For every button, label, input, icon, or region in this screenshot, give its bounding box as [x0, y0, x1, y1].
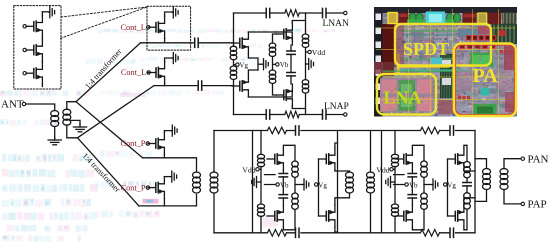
- svg-text:Cont_L: Cont_L: [121, 68, 146, 77]
- wire PA1 input sources: [282, 170, 284, 205]
- wire P2 drain to output: [292, 106, 305, 109]
- Cont_L terminal 1: [147, 26, 150, 29]
- svg-text:SPDT: SPDT: [403, 39, 449, 59]
- Cont_P terminal 2: [146, 186, 149, 189]
- wire PA1 mid tap: [295, 184, 303, 186]
- wire T3 secondary top: [370, 131, 372, 173]
- callout line upper: [61, 7, 147, 17]
- wire to LNAP: [327, 114, 344, 116]
- wire to stack ground: [42, 11, 49, 13]
- svg-text:Vdd: Vdd: [312, 48, 326, 57]
- LNAP terminal: [344, 113, 347, 116]
- wire PA2 cascode drains: [464, 145, 467, 230]
- wire N cont.: [200, 42, 233, 44]
- PA FET PA1b (input bottom): [267, 215, 275, 217]
- wire feedback left N: [233, 13, 235, 43]
- wire PA2 Vdd stub: [393, 168, 395, 170]
- capacitor C10 (PA1 bottom): [295, 228, 297, 237]
- stacked FET M2 gate terminal: [23, 48, 26, 51]
- PA block outline (red): [456, 45, 515, 115]
- wire PA1 cascode gates: [317, 159, 320, 216]
- wire N (LNA input N): [141, 42, 194, 44]
- switch FET SW3: [148, 143, 156, 145]
- svg-text:LNAN: LNAN: [323, 19, 350, 29]
- inductor PA1 mid bottom: [292, 193, 299, 199]
- wire: [273, 84, 277, 96]
- wire: [233, 80, 235, 86]
- ground (SW3): [171, 130, 174, 132]
- wire Vb stub: [273, 57, 276, 71]
- wire T1 primary to ground: [54, 127, 56, 139]
- ground (T1 primary): [54, 138, 56, 141]
- wire (stack drain-source links): [41, 12, 43, 87]
- wire diagonal to LNA P: [78, 86, 155, 138]
- svg-text:Vb: Vb: [280, 181, 289, 189]
- wire: [271, 12, 285, 14]
- svg-text:PA: PA: [473, 65, 499, 87]
- PA FET PA2a (input top): [396, 158, 404, 160]
- stacked FET M2: [26, 49, 34, 51]
- inductor Lg2: [230, 66, 237, 71]
- PA FET PA2d (cascode bottom): [448, 215, 456, 217]
- wire T1 secondary top: [67, 102, 76, 110]
- wire PA1 cascode drains: [335, 143, 338, 232]
- resistor R2 (feedback P): [285, 111, 300, 118]
- wire: [299, 12, 321, 14]
- wire P (LNA input P): [154, 85, 197, 87]
- inductor PA1 mid top: [292, 161, 299, 167]
- wire T4 secondary top to PAN: [504, 159, 521, 169]
- ground (PA2 bias): [391, 181, 396, 183]
- wire ANT to transformer: [26, 104, 55, 111]
- LNAN terminal: [344, 11, 347, 14]
- wire LNA bottom rail: [234, 114, 266, 116]
- svg-text:Cont_P: Cont_P: [120, 139, 145, 148]
- ground (SW4): [170, 176, 173, 178]
- wire PA2 input drains: [412, 145, 424, 230]
- Vdd terminal (LNA): [308, 50, 311, 53]
- Vb terminal (LNA): [276, 63, 279, 66]
- LNA block outline: [377, 74, 436, 115]
- dashed zoom box (switch FET): [147, 6, 191, 50]
- wire: [299, 114, 321, 116]
- stacked FET M3: [26, 72, 34, 74]
- PA FET PA2c (cascode top): [448, 158, 456, 160]
- svg-text:PAN: PAN: [528, 153, 549, 165]
- svg-text:Vg: Vg: [447, 181, 456, 189]
- ground (PA1 mid): [303, 184, 304, 186]
- wire SW4 source to PA wire: [163, 199, 165, 206]
- wire T2 secondary bottom: [213, 193, 215, 233]
- svg-text:LNA: LNA: [384, 88, 422, 108]
- wire PA1 right vertical: [337, 131, 339, 233]
- wire PA2 stubs: [394, 175, 405, 185]
- Vdd terminal (PA1): [256, 168, 259, 171]
- ground (stack top): [48, 11, 51, 13]
- PA FET PA1d (cascode bottom): [319, 215, 327, 217]
- wire LNA top rail: [234, 12, 266, 14]
- LNA cascode FET N2: [276, 33, 284, 35]
- resistor R3 (PA1 top): [268, 127, 287, 134]
- wire T1 center tap: [70, 120, 80, 124]
- wire PA2 right column: [466, 178, 468, 192]
- svg-text:ANT: ANT: [1, 98, 24, 110]
- inductor Lb2: [269, 70, 276, 75]
- Cont_P terminal 1: [146, 142, 149, 145]
- wire P cont.: [203, 85, 232, 87]
- svg-text:Vg: Vg: [239, 61, 248, 69]
- wire PA1 mid column: [294, 178, 296, 193]
- wire T2 secondary top: [213, 131, 215, 173]
- Vg terminal (PA1): [315, 183, 318, 186]
- switch FET SW1: [148, 26, 156, 28]
- wire T3 primary top: [338, 171, 350, 172]
- wire SW3 source to PA wire: [163, 155, 165, 158]
- capacitor PA1 Vb top: [279, 173, 287, 175]
- Vg terminal (LNA): [236, 63, 239, 66]
- ground (T1 center tap): [79, 125, 81, 128]
- wire T1 secondary bottom: [67, 125, 78, 138]
- wire PA2 cascode gates: [446, 159, 449, 216]
- ground (PA2 mid): [432, 184, 433, 186]
- capacitor PA1 Vb bottom: [279, 194, 287, 196]
- inductor PA2 bias bottom: [391, 204, 398, 209]
- decorative artifact bands: [0, 29, 335, 242]
- transformer T3 primary coil: [346, 172, 354, 178]
- transformer T2 primary coil: [193, 172, 201, 178]
- SPDT block outline: [395, 24, 491, 66]
- wire Vg stub: [234, 60, 236, 66]
- wire T4 secondary bottom to PAP: [504, 190, 521, 204]
- wire output column top: [305, 13, 307, 34]
- PA FET PA1a (input top): [267, 158, 275, 160]
- inductor Ld2: [302, 80, 309, 85]
- svg-text:Cont_L: Cont_L: [120, 23, 145, 32]
- transformer T1 primary coil: [51, 111, 59, 117]
- svg-text:LNAP: LNAP: [324, 102, 349, 112]
- ground (PA1 bias): [257, 181, 262, 183]
- ground (SW1): [172, 11, 175, 13]
- ground (SW2): [172, 57, 175, 59]
- wire P1 source to gnd node: [248, 70, 258, 75]
- capacitor C1 (input N): [194, 38, 196, 47]
- wire PA top rail: [214, 130, 475, 132]
- svg-text:PAP: PAP: [528, 199, 547, 211]
- wire SW4 drain to ground: [164, 176, 171, 178]
- wire PA1 input drains: [283, 145, 295, 230]
- capacitor C8 (Vb bottom): [287, 72, 295, 74]
- LNA input FET N1: [232, 42, 240, 44]
- wire PA2 mid column: [423, 178, 425, 193]
- svg-text:Vdd: Vdd: [376, 165, 390, 174]
- wire PA1 stubs: [265, 175, 276, 185]
- wire N1 drain to N2 source: [248, 32, 292, 40]
- inductor PA2 mid bottom: [421, 193, 428, 199]
- wire SW1 source to node N: [164, 38, 166, 43]
- wire PA2 cascode sources: [464, 170, 475, 205]
- capacitor C3 (feedback N): [265, 8, 267, 17]
- wire T3 primary bottom: [338, 193, 350, 198]
- svg-text:Vb: Vb: [280, 61, 289, 69]
- stacked FET M1: [26, 25, 34, 27]
- wire diagonal to PA P: [78, 138, 139, 206]
- wire N2 drain to output: [292, 21, 305, 24]
- transformer T2 secondary coil: [210, 172, 218, 178]
- switch FET SW4: [148, 187, 156, 189]
- LNA cascode FET P2: [276, 94, 284, 96]
- capacitor C7 (Vb top): [287, 50, 295, 52]
- transformer T1 secondary coil: [63, 109, 71, 115]
- wire Vb cap chain: [290, 45, 292, 84]
- wire PA input P: [139, 195, 197, 206]
- wire: [233, 43, 235, 46]
- PA FET PA2b (input bottom): [396, 215, 404, 217]
- wire: [273, 34, 277, 43]
- capacitor C11 (PA2 top): [449, 126, 451, 135]
- wire PA1 Vb column: [282, 177, 284, 195]
- svg-text:Vg: Vg: [318, 181, 327, 189]
- resistor R4 (PA1 bottom): [268, 230, 287, 237]
- resistor R1 (feedback N): [285, 10, 300, 17]
- resistor R5 (PA2 top): [421, 127, 440, 134]
- wire to LNAN: [327, 12, 344, 14]
- wire PA1 left vertical: [252, 131, 254, 233]
- wire PA2 input sources: [411, 170, 413, 205]
- wire SW1 drain to ground: [165, 12, 173, 16]
- wire T4 primary top: [475, 159, 487, 169]
- switch FET SW2: [148, 72, 156, 74]
- callout line lower: [61, 7, 148, 38]
- Vg terminal (PA2): [444, 183, 447, 186]
- wire PA1 bias column: [260, 131, 262, 233]
- transformer T4 primary coil: [483, 169, 491, 175]
- inductor PA1 bias top: [257, 154, 264, 159]
- wire PA1 Vdd stub: [259, 168, 261, 170]
- Vb terminal (PA2): [405, 183, 408, 186]
- capacitor C5 (feedback P): [265, 110, 267, 119]
- ground (LNA sources): [258, 63, 264, 65]
- LNA input FET P1: [232, 85, 240, 87]
- capacitor PA2 Vb top: [408, 173, 416, 175]
- wire PA2 left vertical: [381, 131, 383, 233]
- wire PA2 Vb column: [411, 177, 413, 195]
- capacitor C4 (output N): [322, 8, 324, 17]
- Vb terminal (PA1): [276, 183, 279, 186]
- wire N1 source to gnd node: [248, 54, 258, 70]
- transformer T3 secondary coil: [367, 172, 375, 178]
- inductor PA2 bias top: [391, 154, 398, 159]
- wire PA2 right vertical: [474, 131, 476, 233]
- wire diagonal to LNA N: [76, 43, 141, 102]
- inductor Lb1: [269, 43, 276, 48]
- inductor Lg1: [230, 46, 237, 51]
- svg-text:Vdd: Vdd: [242, 165, 256, 174]
- capacitor C2 (input P): [197, 81, 199, 90]
- wire output column mid: [306, 48, 309, 80]
- wire output column bottom: [305, 93, 307, 114]
- Vdd terminal (PA2): [390, 168, 393, 171]
- PA block outline: [454, 44, 516, 117]
- ground (LNA Vdd decouple): [306, 63, 309, 65]
- inductor PA1 bias bottom: [257, 204, 264, 209]
- wire PA2 mid tap: [424, 184, 432, 186]
- wire SW2 source to node P: [164, 84, 166, 86]
- stacked FET M3 gate terminal: [23, 72, 26, 75]
- wire: [271, 114, 285, 116]
- ANT terminal: [22, 102, 25, 105]
- capacitor C9 (PA1 top): [295, 126, 297, 135]
- wire SW2 drain to ground: [165, 58, 173, 62]
- svg-text:Cont_P: Cont_P: [121, 183, 146, 192]
- transformer T4 secondary coil: [500, 169, 508, 175]
- capacitor C12 (PA2 bottom): [449, 228, 451, 237]
- wire PA input N: [143, 158, 197, 172]
- capacitor PA2 Vb bottom: [408, 194, 416, 196]
- chip micrograph structures: [374, 7, 517, 117]
- svg-text:Vb: Vb: [409, 181, 418, 189]
- PAN terminal: [521, 157, 524, 160]
- PA FET PA1c (cascode top): [319, 158, 327, 160]
- wire feedback left P: [233, 86, 235, 115]
- inductor Ld1: [302, 34, 309, 39]
- capacitor C6 (output P): [322, 110, 324, 119]
- wire PA2 bias column: [394, 131, 396, 233]
- capacitor PA2 right: [463, 182, 471, 184]
- inductor PA2 right top: [464, 162, 471, 168]
- inductor PA2 right bottom: [464, 193, 471, 199]
- wire T4 primary bottom: [475, 190, 487, 202]
- chip micrograph base: [374, 7, 517, 117]
- inductor PA2 mid top: [421, 161, 428, 167]
- wire P1 drain to P2 source: [248, 90, 292, 97]
- wire PA bottom rail: [214, 232, 475, 234]
- wire PA1 cascode sources: [335, 170, 338, 205]
- dashed detail box (stacked switch FETs): [14, 6, 61, 89]
- wire T3 secondary bottom: [370, 193, 372, 233]
- resistor R6 (PA2 bottom): [421, 230, 440, 237]
- stacked FET M1 gate terminal: [23, 25, 26, 28]
- Cont_L terminal 2: [147, 71, 150, 74]
- wire SW3 drain to ground: [164, 131, 171, 133]
- PAP terminal: [521, 202, 524, 205]
- wire diagonal to PA N: [76, 102, 143, 158]
